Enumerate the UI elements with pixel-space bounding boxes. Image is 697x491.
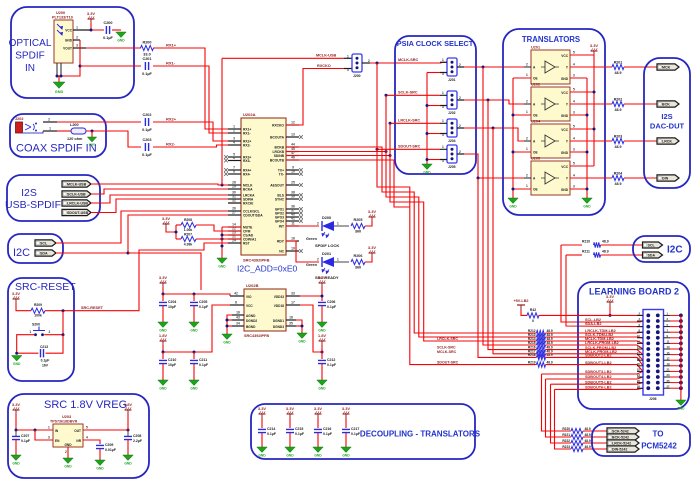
power 3.3V LB2 <box>606 294 615 306</box>
svg-text:BCKA: BCKA <box>243 188 253 192</box>
svg-text:34: 34 <box>236 322 240 326</box>
svg-text:21: 21 <box>667 368 671 372</box>
svg-text:4: 4 <box>573 174 575 178</box>
wire sb2a <box>542 371 649 374</box>
svg-text:19: 19 <box>291 247 295 251</box>
svg-text:OPTICAL: OPTICAL <box>9 38 52 49</box>
wire <box>334 261 349 263</box>
net label MCLK-SRC <box>398 58 419 62</box>
net MCLK-USB wire <box>91 184 241 185</box>
svg-text:22: 22 <box>637 368 641 372</box>
svg-text:4: 4 <box>573 63 575 67</box>
node <box>162 351 196 354</box>
wire RDY to D201 <box>286 241 319 262</box>
svg-text:GND: GND <box>561 188 569 192</box>
wire GND loop <box>57 40 80 76</box>
svg-text:GND: GND <box>509 205 517 209</box>
svg-text:1: 1 <box>49 127 51 131</box>
svg-text:GND: GND <box>423 171 431 175</box>
LED D200 <box>306 216 339 248</box>
svg-text:R222: R222 <box>562 439 570 443</box>
wire <box>300 305 322 352</box>
power 3.3V D200 <box>368 209 377 221</box>
power 3.3V C214 <box>258 406 267 418</box>
wire <box>58 76 60 82</box>
svg-text:3: 3 <box>48 436 50 440</box>
wire <box>601 254 643 256</box>
svg-text:2: 2 <box>49 330 51 334</box>
svg-text:0.1µF: 0.1µF <box>21 439 31 443</box>
svg-text:2: 2 <box>317 258 319 262</box>
svg-text:SCL: SCL <box>648 244 656 248</box>
wire MCLK vertical <box>377 63 537 365</box>
svg-text:C212: C212 <box>327 358 335 362</box>
svg-text:RX2-: RX2- <box>243 144 251 148</box>
svg-text:19: 19 <box>667 362 671 366</box>
wire <box>601 244 643 246</box>
svg-text:LRCLK-USB: LRCLK-USB <box>67 202 88 206</box>
svg-text:48.9: 48.9 <box>615 182 622 186</box>
svg-text:GND: GND <box>314 454 322 458</box>
svg-text:1: 1 <box>526 110 528 114</box>
power 1.8V U202B <box>159 333 168 345</box>
node C201 tap <box>79 65 82 68</box>
svg-text:29: 29 <box>232 185 236 189</box>
pin 4 U203 <box>86 436 88 440</box>
wire sb2c <box>551 383 649 385</box>
net label MCLK-USB <box>316 54 337 58</box>
net label SRC-RESET <box>81 306 104 310</box>
wire OUT <box>83 429 128 431</box>
capacitor C206 <box>318 300 337 309</box>
svg-text:GND: GND <box>318 387 326 391</box>
block OPTICAL SPDIF IN title <box>9 38 52 74</box>
svg-text:1.8V: 1.8V <box>124 402 133 407</box>
svg-text:U202: U202 <box>531 83 540 87</box>
svg-text:VCC: VCC <box>561 54 568 58</box>
svg-text:GND: GND <box>159 387 167 391</box>
svg-text:GND: GND <box>318 329 326 333</box>
wire INT to D200 <box>286 225 319 227</box>
svg-text:GND: GND <box>13 362 21 366</box>
block LEARNING BOARD 2 <box>578 282 689 409</box>
svg-text:3: 3 <box>573 148 575 152</box>
capacitor C217 <box>342 427 361 436</box>
svg-text:GND: GND <box>190 387 198 391</box>
wire <box>162 352 164 359</box>
block COAX SPDIF IN <box>10 114 106 157</box>
svg-text:D201: D201 <box>322 252 331 256</box>
block DECOUPLING <box>251 404 475 459</box>
node <box>15 429 37 432</box>
power 3.3V C217 <box>342 406 351 418</box>
wire <box>289 433 291 447</box>
svg-text:BGND: BGND <box>246 325 256 329</box>
svg-text:GND: GND <box>64 465 72 469</box>
svg-text:48.9: 48.9 <box>615 108 622 112</box>
net label MCLK-SRC b <box>437 350 457 354</box>
pin 2 J202 <box>43 118 57 123</box>
svg-text:1: 1 <box>442 91 444 95</box>
svg-text:18: 18 <box>291 237 295 241</box>
svg-text:3.3V: 3.3V <box>318 275 327 280</box>
net RX2- <box>153 142 241 148</box>
block I2C left <box>8 234 63 263</box>
wire R208 to CPM <box>196 225 241 231</box>
svg-text:TX-: TX- <box>279 173 284 177</box>
tag SDOUT-USB <box>62 209 91 215</box>
svg-text:I2C_ADD=0xE0: I2C_ADD=0xE0 <box>237 264 298 274</box>
svg-text:48.9: 48.9 <box>615 145 622 149</box>
svg-text:11: 11 <box>667 340 670 344</box>
node <box>426 104 429 161</box>
wire <box>127 430 129 455</box>
svg-text:LRCLK-FROM-LB2: LRCLK-FROM-LB2 <box>585 341 619 345</box>
svg-text:SDA: SDA <box>40 252 48 256</box>
net SCLK-SRC wire <box>386 94 440 96</box>
capacitor C207 <box>12 434 31 443</box>
block TRANSLATORS title <box>522 35 580 44</box>
svg-text:U202A: U202A <box>243 112 256 117</box>
svg-text:12: 12 <box>291 121 295 125</box>
svg-text:2: 2 <box>317 222 319 226</box>
wire <box>193 364 195 380</box>
svg-text:44: 44 <box>291 143 295 147</box>
svg-text:0.1µF: 0.1µF <box>103 36 113 40</box>
ground C207 <box>11 455 21 466</box>
wire Y3 <box>570 140 612 142</box>
wire pcm v4 <box>555 389 572 449</box>
svg-text:8: 8 <box>235 301 237 305</box>
svg-text:AGND: AGND <box>246 314 256 318</box>
svg-text:J205: J205 <box>448 165 456 169</box>
jumper J200 <box>347 54 370 78</box>
svg-text:24: 24 <box>637 373 641 377</box>
svg-text:2: 2 <box>526 137 528 141</box>
block VREG title <box>44 399 127 411</box>
wire BCKOUTB route <box>286 160 410 207</box>
wire LRCKB route <box>286 151 386 153</box>
svg-text:COAX SPDIF IN: COAX SPDIF IN <box>16 143 97 155</box>
svg-text:48.9: 48.9 <box>547 360 553 364</box>
svg-text:MCLK-SRC: MCLK-SRC <box>437 350 457 354</box>
node <box>175 231 178 234</box>
wire SDINB vertical <box>390 123 537 341</box>
svg-text:48.9: 48.9 <box>585 427 591 431</box>
wire <box>91 131 93 138</box>
resistor R201 <box>612 61 624 76</box>
svg-text:TO: TO <box>653 430 664 439</box>
svg-text:1.00k: 1.00k <box>184 228 193 232</box>
svg-text:SCL: SCL <box>40 242 48 246</box>
svg-text:GND: GND <box>64 443 72 447</box>
wire <box>162 306 164 322</box>
power 3.3V C216 <box>314 406 323 418</box>
wire pcm rows <box>583 431 607 449</box>
svg-text:4: 4 <box>86 436 88 440</box>
wire <box>321 345 323 359</box>
capacitor C212 <box>318 358 337 367</box>
svg-text:GND: GND <box>561 151 569 155</box>
svg-text:RX1+: RX1+ <box>166 43 177 48</box>
svg-text:46: 46 <box>291 156 295 160</box>
svg-text:6: 6 <box>233 156 235 160</box>
ground C211 <box>189 380 199 391</box>
svg-text:GND: GND <box>218 265 226 269</box>
capacitor C210 <box>159 358 177 367</box>
tag DIN <box>657 175 679 181</box>
svg-text:R211: R211 <box>582 250 590 254</box>
svg-text:PSIA CLOCK SELECT: PSIA CLOCK SELECT <box>397 39 474 48</box>
wire J202 down <box>488 100 537 350</box>
ground C214 <box>257 447 267 458</box>
block I2S USB-SPDIF <box>7 175 100 221</box>
ground PSIA <box>422 164 432 175</box>
inductor L200 <box>67 123 86 141</box>
wire <box>16 414 53 430</box>
svg-text:3.3V: 3.3V <box>368 209 377 214</box>
svg-text:3: 3 <box>573 74 575 78</box>
svg-text:SPDIF LOCK: SPDIF LOCK <box>315 243 339 248</box>
svg-text:48.9: 48.9 <box>585 439 591 443</box>
ground C210 <box>158 380 168 391</box>
svg-text:R219: R219 <box>528 360 536 364</box>
wire EN <box>35 430 53 440</box>
svg-text:USB-SPDIF: USB-SPDIF <box>5 199 61 211</box>
op-amp U202B SRC4392IPFB <box>244 283 286 338</box>
net RXCKI wire <box>228 202 241 204</box>
wire <box>321 306 323 322</box>
wire R207 to CDIN <box>196 238 241 240</box>
wire <box>261 433 263 447</box>
svg-text:U200: U200 <box>56 11 65 15</box>
svg-text:R209: R209 <box>34 303 42 307</box>
wire <box>365 221 372 226</box>
svg-text:RXCKI: RXCKI <box>243 202 253 206</box>
wire <box>317 418 319 428</box>
svg-text:48.9: 48.9 <box>615 71 622 75</box>
svg-text:CDOUT/SDA: CDOUT/SDA <box>243 214 263 218</box>
net label SCLK-SRC <box>398 91 418 95</box>
svg-text:GND: GND <box>190 329 198 333</box>
svg-text:3.3V: 3.3V <box>12 291 21 296</box>
svg-text:SDOUT-SRC: SDOUT-SRC <box>437 361 459 365</box>
wire pcm v3 <box>551 384 572 443</box>
svg-text:DIN: DIN <box>662 177 669 181</box>
svg-text:U205: U205 <box>531 157 540 161</box>
svg-text:C209: C209 <box>105 443 113 447</box>
net SDOUT-SRC wire <box>377 148 440 150</box>
svg-text:33.0: 33.0 <box>143 53 150 57</box>
svg-text:GND: GND <box>124 462 132 466</box>
svg-text:GPO4: GPO4 <box>275 220 284 224</box>
wire J206 right rail <box>637 312 683 400</box>
tag SDA right <box>643 252 663 258</box>
wire 3.3V rail <box>163 287 230 296</box>
svg-text:MCLK-USB: MCLK-USB <box>316 54 337 58</box>
svg-text:I2C: I2C <box>13 247 30 259</box>
svg-text:R200: R200 <box>142 41 151 45</box>
wire <box>57 130 71 132</box>
svg-text:D200: D200 <box>322 216 331 220</box>
wire R42 to LB <box>539 314 648 316</box>
text I2C_ADD <box>237 264 298 274</box>
svg-text:1: 1 <box>526 73 528 77</box>
wire <box>624 177 657 179</box>
svg-text:R204: R204 <box>614 172 623 176</box>
wire MUTE rail <box>221 227 223 258</box>
pin 3 U200 <box>73 44 86 49</box>
ground C208 <box>123 455 133 466</box>
node <box>62 309 65 312</box>
power 3.3V VDD33 <box>318 275 327 287</box>
svg-text:C207: C207 <box>21 434 29 438</box>
svg-text:18: 18 <box>289 316 293 320</box>
svg-text:BCKB: BCKB <box>274 146 284 150</box>
svg-text:RX1-: RX1- <box>243 132 251 136</box>
svg-text:R207: R207 <box>184 233 192 237</box>
svg-text:43: 43 <box>236 316 240 320</box>
svg-text:VIO: VIO <box>246 295 252 299</box>
svg-text:TRANSLATORS: TRANSLATORS <box>522 35 580 44</box>
power 3.3V translators <box>590 43 599 55</box>
svg-text:I2C: I2C <box>667 245 683 256</box>
svg-text:MCK: MCK <box>662 66 671 70</box>
svg-text:OE: OE <box>533 188 538 192</box>
svg-text:PCM5242: PCM5242 <box>641 442 677 451</box>
wire <box>16 303 31 311</box>
svg-text:C203: C203 <box>142 138 151 142</box>
svg-text:0.1µF: 0.1µF <box>267 432 277 436</box>
ground C216 <box>313 447 323 458</box>
wire <box>193 352 195 359</box>
svg-text:0.1µF: 0.1µF <box>327 363 337 367</box>
svg-text:VCC: VCC <box>65 29 72 33</box>
svg-text:R215: R215 <box>528 341 536 345</box>
connector J202 coax <box>15 117 37 133</box>
wire PSIA gnd rail <box>427 73 440 165</box>
resistor R205 <box>351 218 365 234</box>
svg-text:3.3V: 3.3V <box>368 245 377 250</box>
block SRC-RESET <box>8 278 74 381</box>
pin 1 U203 <box>48 426 50 430</box>
svg-text:GND: GND <box>55 90 64 94</box>
node <box>56 75 63 78</box>
wire <box>99 449 101 460</box>
svg-text:10µF: 10µF <box>168 305 177 309</box>
pin 1 J202 <box>43 127 57 132</box>
wire VOUT <box>86 47 141 49</box>
svg-text:GND: GND <box>96 467 104 471</box>
wire <box>162 294 164 301</box>
svg-text:26: 26 <box>637 379 641 383</box>
svg-text:1: 1 <box>442 145 444 149</box>
ground C215 <box>285 447 295 458</box>
block PSIA title <box>397 39 474 48</box>
svg-text:25: 25 <box>291 181 295 185</box>
resistor R203 <box>612 135 624 150</box>
wire sb2d <box>555 388 649 389</box>
wire <box>57 63 61 76</box>
svg-text:16: 16 <box>637 351 641 355</box>
svg-text:18: 18 <box>637 356 641 360</box>
svg-text:R210: R210 <box>582 240 590 244</box>
ground SRC-RESET <box>12 356 22 367</box>
wire <box>334 225 349 227</box>
wire J200 out <box>362 61 447 64</box>
net labels LB rows <box>585 318 619 389</box>
wire <box>17 335 39 354</box>
svg-text:2: 2 <box>526 100 528 104</box>
svg-text:BCK: BCK <box>662 103 670 107</box>
wire <box>193 306 195 322</box>
tag SCLK-USB <box>62 191 91 197</box>
svg-text:3.3V: 3.3V <box>162 216 171 221</box>
net label LRCLK-SRC b <box>437 337 458 341</box>
svg-text:Green: Green <box>306 237 318 241</box>
power 3.3V U200 <box>87 11 96 23</box>
node <box>593 91 596 131</box>
U202A left pins <box>228 125 263 246</box>
op-amp U202A SRC4392IPFB <box>241 112 286 263</box>
svg-text:C216: C216 <box>323 427 331 431</box>
node <box>487 99 490 102</box>
svg-text:1: 1 <box>526 184 528 188</box>
block DAC title <box>650 112 685 131</box>
ground U202B right <box>297 333 307 344</box>
pin 3 U203 <box>48 436 50 440</box>
svg-text:1: 1 <box>30 330 32 334</box>
block I2S DAC-DUT <box>644 58 690 188</box>
svg-text:DECOUPLING - TRANSLATORS: DECOUPLING - TRANSLATORS <box>360 430 481 439</box>
svg-text:48.9: 48.9 <box>585 445 591 449</box>
svg-text:4: 4 <box>233 141 235 145</box>
svg-text:1: 1 <box>526 147 528 151</box>
svg-text:VDD18: VDD18 <box>274 304 285 308</box>
net RX2+ wire <box>57 121 141 123</box>
svg-text:R208: R208 <box>184 218 192 222</box>
power 3.3V VREG <box>12 402 21 414</box>
tag LRCLK-USB <box>62 200 91 206</box>
resistor R202 <box>612 98 624 113</box>
svg-text:SRC-RESET: SRC-RESET <box>15 281 76 293</box>
svg-text:14: 14 <box>637 345 641 349</box>
svg-text:VCC: VCC <box>561 128 568 132</box>
svg-text:DGND1: DGND1 <box>273 319 284 323</box>
svg-text:3.3V: 3.3V <box>159 275 168 280</box>
wire <box>345 433 347 447</box>
svg-text:J202: J202 <box>15 117 23 121</box>
svg-text:NC: NC <box>279 250 284 254</box>
block I2S USB-SPDIF title <box>5 187 61 211</box>
net label SCLK-SRC b <box>437 346 456 350</box>
svg-text:VDD33: VDD33 <box>274 295 285 299</box>
op-amp U200 <box>52 11 73 63</box>
svg-text:0.1µF: 0.1µF <box>142 72 152 76</box>
svg-text:OE: OE <box>533 114 538 118</box>
wire <box>521 310 527 315</box>
svg-text:0.1µF: 0.1µF <box>199 305 209 309</box>
svg-text:VCC: VCC <box>561 165 568 169</box>
wire <box>609 306 611 315</box>
svg-text:Green: Green <box>306 263 318 267</box>
tag SDA <box>35 250 56 256</box>
svg-text:R223: R223 <box>562 445 570 449</box>
svg-text:39: 39 <box>291 195 295 199</box>
svg-text:16V: 16V <box>42 364 49 368</box>
svg-text:5: 5 <box>573 51 575 55</box>
svg-text:VCC: VCC <box>561 91 568 95</box>
